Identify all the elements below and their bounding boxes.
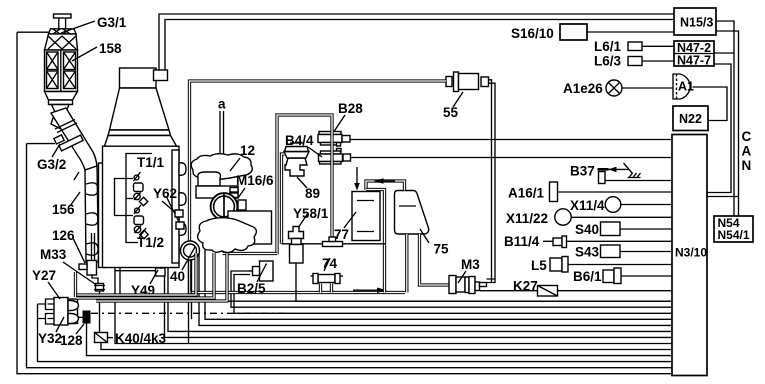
engine ports (179, 163, 186, 236)
svg-text:L6/3: L6/3 (594, 54, 622, 69)
svg-text:40: 40 (170, 269, 185, 284)
air cleaner (105, 68, 177, 146)
intake manifold 12 (191, 143, 255, 180)
sensor B37 with ground (570, 163, 672, 184)
svg-text:Y58/1: Y58/1 (293, 206, 329, 221)
ignition coil T1/2 (134, 205, 164, 250)
svg-text:A: A (742, 144, 752, 159)
relay K40/4k3 (95, 331, 167, 346)
wire bus7 K40 output (165, 276, 673, 337)
svg-text:M16/6: M16/6 (236, 173, 274, 188)
leak pump 75 (395, 191, 450, 257)
svg-text:A1: A1 (678, 80, 694, 94)
idle actuator 40 (170, 241, 200, 284)
svg-text:M33: M33 (40, 247, 67, 262)
air intake 89 (284, 143, 320, 201)
wire M3 to K27 (480, 290, 538, 292)
wire 40 down (189, 260, 192, 344)
svg-text:S16/10: S16/10 (511, 26, 554, 41)
sensor B11/4 (504, 234, 672, 249)
svg-text:B2/5: B2/5 (237, 281, 266, 296)
wire bus10 (87, 324, 673, 356)
svg-text:Y32: Y32 (38, 331, 62, 346)
svg-text:M3: M3 (461, 257, 480, 272)
svg-text:75: 75 (434, 242, 450, 257)
svg-text:B37: B37 (570, 164, 595, 179)
sensor B4/4 (285, 133, 351, 164)
instrument cluster A1 (673, 74, 694, 99)
oxygen sensor G3/1 (61, 15, 127, 33)
switch S43 (575, 245, 672, 260)
intake runner outlet bar (223, 252, 278, 255)
wire Y58/1 down (296, 263, 672, 301)
wire bus9 K40 down (101, 343, 672, 350)
wire B28 to N3/10 (350, 139, 672, 141)
wire bus6 (168, 268, 672, 332)
catalytic converter top flange (49, 14, 77, 34)
svg-text:77: 77 (334, 227, 349, 242)
svg-text:L6/1: L6/1 (594, 39, 622, 54)
svg-text:X11/4: X11/4 (570, 198, 605, 213)
solenoid M33 (40, 233, 105, 333)
wire B4/4 to N3/10 (351, 157, 673, 159)
wire G3/1 lead (17, 31, 53, 33)
svg-text:T1/1: T1/1 (137, 155, 165, 170)
hose canister side down (366, 190, 385, 293)
svg-text:N15/3: N15/3 (680, 16, 713, 30)
wire A1 to N22 (693, 87, 728, 121)
svg-text:B6/1: B6/1 (573, 269, 602, 284)
valve block Y27 Y32 (32, 268, 79, 346)
top wires from air cleaner to N15/3 (159, 14, 674, 70)
indicator lamp A1e26 (563, 80, 673, 96)
sensor B28 (318, 101, 363, 146)
shutoff valve 74 (311, 256, 344, 284)
switch S16/10 (511, 24, 674, 41)
hose pump left leg down (405, 234, 408, 293)
svg-text:C: C (742, 129, 752, 144)
svg-text:G3/1: G3/1 (97, 15, 127, 30)
wire bus4 (205, 250, 672, 319)
sensor B2/5 (237, 261, 273, 296)
svg-text:N3/10: N3/10 (675, 246, 707, 260)
hose manifold frame left down (190, 150, 406, 293)
CAN bus wires (716, 21, 734, 216)
connector A16/1 (508, 182, 672, 202)
control unit N3/10 (672, 135, 707, 376)
catalyst body 158 (45, 34, 123, 92)
svg-text:N47-7: N47-7 (677, 54, 711, 68)
ignition coil T1/1 (134, 155, 165, 206)
engine block (103, 146, 180, 267)
engine wall (99, 163, 106, 268)
svg-text:T1/2: T1/2 (137, 235, 164, 250)
wire B2/5 to N3/10 a (231, 271, 672, 307)
module N54 N54/1 (714, 216, 753, 242)
svg-text:N54/1: N54/1 (718, 228, 750, 242)
CAN label (742, 129, 752, 173)
svg-text:G3/2: G3/2 (37, 157, 66, 172)
svg-text:126: 126 (52, 228, 75, 243)
wire bus5 (199, 250, 672, 325)
svg-text:K40/4k3: K40/4k3 (115, 331, 167, 346)
valve Y49 (115, 268, 165, 298)
svg-text:B28: B28 (338, 101, 363, 116)
wire bus11 (38, 304, 673, 362)
svg-text:A16/1: A16/1 (508, 186, 545, 201)
svg-text:N22: N22 (679, 112, 702, 126)
wire bus13 G3/1 (17, 32, 672, 374)
module N47-2 / N47-7 (674, 41, 714, 68)
switch S40 (575, 222, 672, 237)
sensor B6/1 (573, 268, 672, 284)
svg-text:A1e26: A1e26 (563, 81, 603, 96)
purge valve Y58/1 (289, 213, 309, 263)
purge pipe with T fitting (282, 206, 386, 247)
svg-text:S43: S43 (575, 245, 600, 260)
lamp L6/3 (594, 54, 674, 69)
connector X11/22 (506, 209, 672, 226)
svg-text:128: 128 (60, 333, 83, 348)
lamp L5 (531, 257, 672, 274)
svg-text:B4/4: B4/4 (285, 133, 314, 148)
svg-text:X11/22: X11/22 (506, 211, 548, 226)
wire N3/10 to CAN (707, 196, 739, 198)
svg-text:89: 89 (305, 186, 320, 201)
svg-text:S40: S40 (575, 222, 599, 237)
svg-text:12: 12 (240, 143, 255, 158)
hose Y27 lines (76, 253, 291, 313)
svg-text:Y27: Y27 (32, 268, 56, 283)
intake runners (198, 218, 257, 253)
svg-text:55: 55 (443, 105, 459, 120)
wire bus12 G3/2 (27, 144, 673, 368)
ignition module bracket (115, 154, 153, 243)
hose loop canister to pump (366, 178, 405, 190)
connector X11/4 (570, 197, 672, 213)
hose manifold to B28 and T-stem (277, 115, 332, 255)
catalytic converter outlet (45, 92, 78, 131)
throttle body M16/6 (196, 172, 274, 244)
fuel filter 55 (443, 72, 489, 120)
hose pump to filter (487, 80, 496, 283)
module N15/3 (674, 8, 716, 35)
svg-text:N: N (742, 158, 752, 173)
wire B2/5 to N3/10 b (234, 275, 672, 314)
relay K27 (513, 279, 672, 297)
fitting 126 (52, 228, 85, 263)
svg-text:a: a (218, 97, 226, 112)
svg-text:158: 158 (99, 41, 122, 56)
svg-text:Y62: Y62 (153, 186, 177, 201)
lamp L6/1 (594, 39, 674, 54)
module N22 (673, 106, 708, 131)
hose pump to M3 (420, 234, 450, 285)
wire N47-7 to N3/10 right (707, 64, 731, 193)
svg-text:L5: L5 (531, 258, 547, 273)
canister 77 (334, 192, 380, 243)
wire N47 to CAN (714, 52, 734, 54)
resonance flap line a (218, 97, 226, 157)
exhaust pipe with G3/2 (27, 108, 98, 172)
hose 74 legs (321, 284, 332, 293)
wire bus1 (120, 268, 672, 302)
svg-text:B11/4: B11/4 (504, 234, 540, 249)
injection valves Y62 (153, 186, 184, 229)
hose 89 to purge pipe (282, 154, 285, 244)
wire bus8 (115, 243, 672, 344)
vacuum element 128 (60, 311, 91, 349)
hose manifold frame to filter (190, 81, 447, 150)
fuel pump M3 (449, 257, 487, 294)
exhaust manifold 156 (52, 166, 99, 262)
pipe arrow into canister 77 (356, 167, 358, 184)
